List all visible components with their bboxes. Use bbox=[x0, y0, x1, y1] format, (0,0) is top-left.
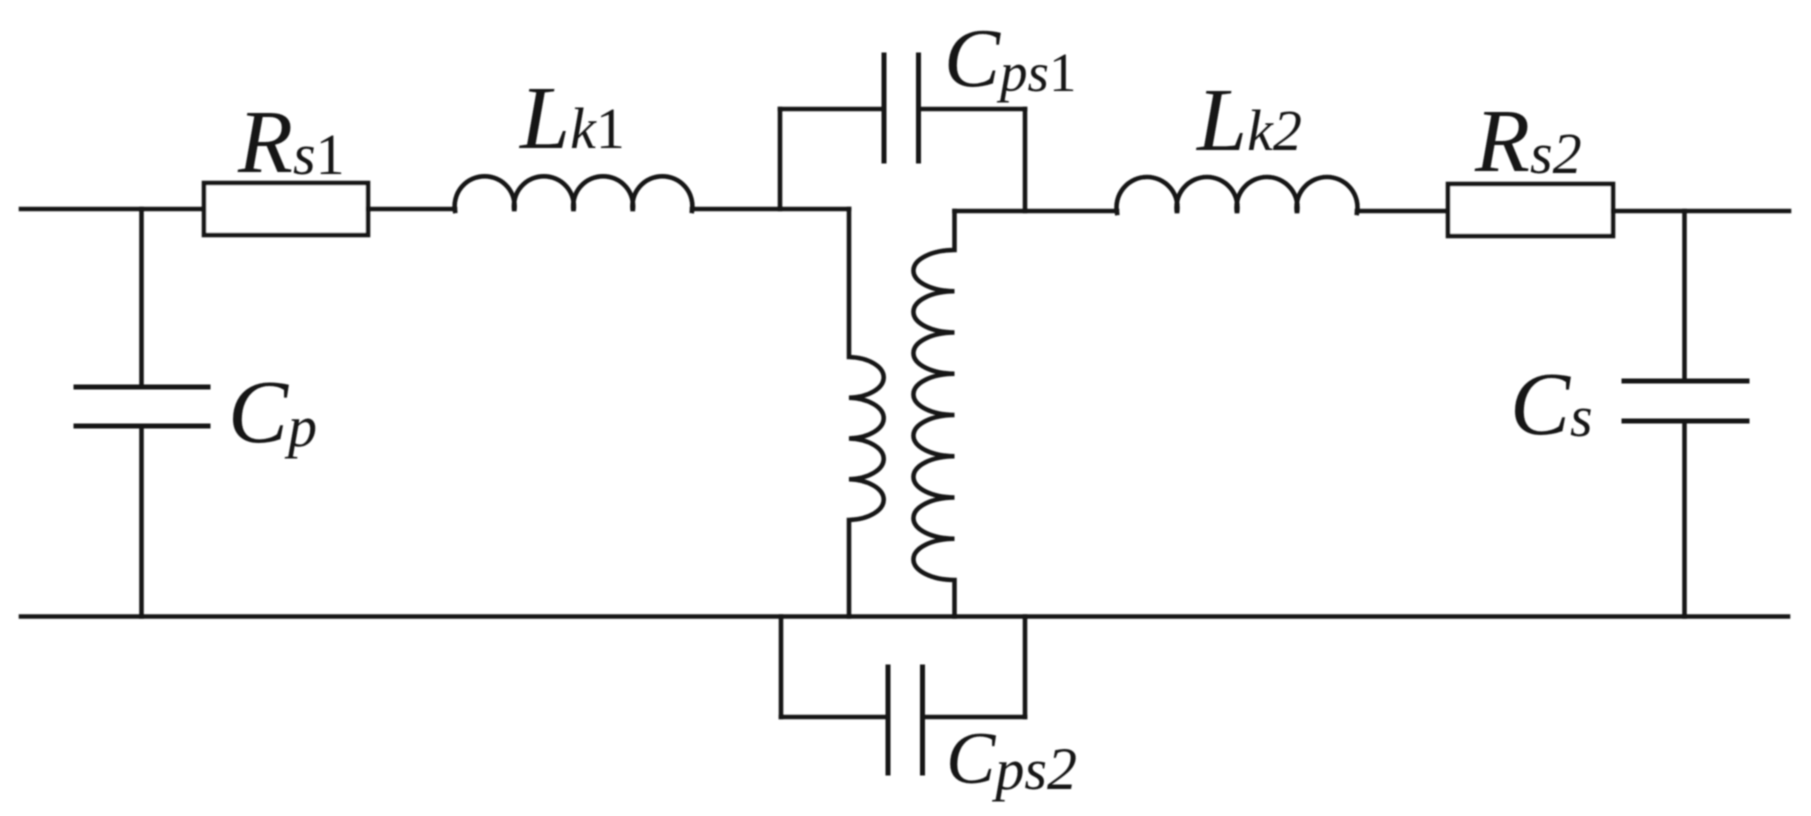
capacitor Cps2 bbox=[888, 667, 923, 773]
wire Cps1 right riser bbox=[1023, 109, 1028, 211]
capacitor Cs bbox=[1624, 381, 1747, 421]
wire Lk1 to transformer bbox=[692, 207, 849, 212]
capacitor Cp bbox=[76, 387, 208, 426]
wire Cps2 left riser bbox=[779, 617, 784, 718]
wire Cps1 left lead bbox=[780, 107, 884, 112]
wire Cps2 right riser bbox=[1023, 617, 1028, 718]
transformer secondary winding bbox=[913, 211, 954, 617]
wire Cp riser bottom bbox=[139, 426, 144, 617]
resistor Rs2 bbox=[1448, 184, 1613, 236]
wire Rs1 to Lk1 bbox=[368, 207, 455, 212]
inductor Lk2 bbox=[1117, 177, 1358, 213]
wire bottom rail bbox=[21, 614, 1788, 619]
wire Lk2 to Rs2 bbox=[1357, 209, 1448, 214]
wire Cs riser top bbox=[1682, 211, 1687, 381]
wire Rs2 to right edge bbox=[1613, 209, 1789, 214]
wire Cs riser bottom bbox=[1682, 421, 1687, 617]
wire Cps1 left riser bbox=[778, 109, 783, 209]
wire Cp riser top bbox=[139, 209, 144, 387]
wire top-left bbox=[21, 207, 204, 212]
wire secondary to Lk2 bbox=[955, 209, 1118, 214]
resistor Rs1 bbox=[204, 183, 368, 235]
capacitor Cps1 bbox=[884, 55, 919, 161]
wire Cps2 right lead bbox=[923, 715, 1026, 720]
inductor Lk1 bbox=[455, 176, 693, 211]
transformer primary winding bbox=[849, 209, 884, 617]
wire Cps2 left lead bbox=[781, 715, 888, 720]
wire Cps1 right lead bbox=[919, 107, 1026, 112]
